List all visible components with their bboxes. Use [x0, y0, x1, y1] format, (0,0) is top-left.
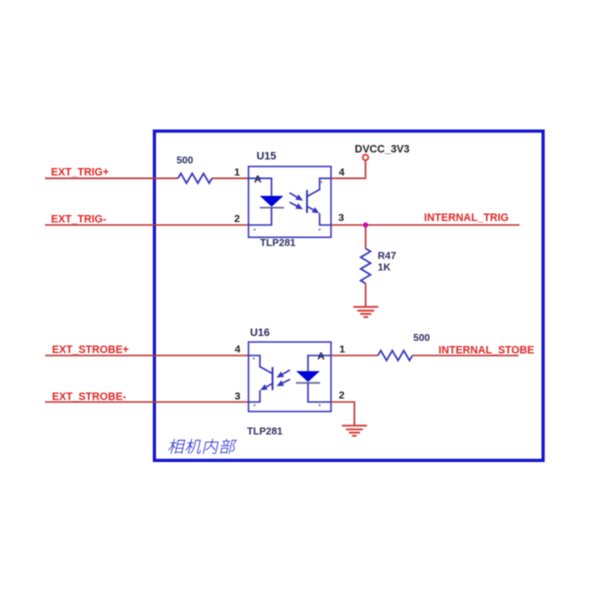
- svg-text:EXT_STROBE-: EXT_STROBE-: [52, 391, 127, 403]
- U16 collector lead (pin 4): [249, 356, 273, 374]
- svg-text:R47: R47: [378, 251, 397, 262]
- svg-text:INTERNAL_STOBE: INTERNAL_STOBE: [439, 345, 535, 357]
- opto-coupler U16 TLP281 body: [249, 342, 332, 412]
- U15 light arrow 1: [290, 193, 297, 197]
- svg-text:1: 1: [339, 344, 345, 356]
- svg-text:TLP281: TLP281: [260, 238, 296, 249]
- wire EXT_TRIG-: [45, 224, 249, 226]
- power port DVCC_3V3 circle: [363, 155, 369, 161]
- U16 LED anode lead (pin 1): [308, 356, 331, 372]
- wire INTERNAL_STOBE: [412, 355, 518, 357]
- U15 phototransistor base: [306, 190, 308, 213]
- svg-text:EXT_STROBE+: EXT_STROBE+: [52, 344, 129, 356]
- opto-coupler U15 TLP281 body: [249, 167, 332, 238]
- resistor R47 1K: [361, 249, 371, 284]
- resistor 500 (trigger input): [178, 173, 212, 183]
- wire EXT_STROBE+: [45, 355, 249, 357]
- ground (below R47): [353, 306, 378, 308]
- svg-text:500: 500: [413, 333, 430, 344]
- svg-text:4: 4: [339, 167, 345, 179]
- boundary box (camera internal): [154, 131, 543, 460]
- U15 light arrow 2: [290, 202, 297, 206]
- wire EXT_STROBE-: [45, 401, 249, 403]
- svg-text:TLP281: TLP281: [247, 426, 283, 437]
- U16 light arrow 1: [283, 370, 290, 374]
- svg-text:A: A: [317, 350, 325, 362]
- svg-text:DVCC_3V3: DVCC_3V3: [355, 143, 410, 155]
- svg-text:2: 2: [234, 213, 240, 225]
- wire junction to R47: [365, 225, 367, 249]
- U15 hidden pin dots: [320, 181, 322, 183]
- wire INTERNAL_TRIG: [331, 224, 520, 226]
- svg-text:EXT_TRIG+: EXT_TRIG+: [51, 167, 109, 179]
- svg-text:500: 500: [177, 156, 194, 167]
- wire pin4 U15 to DVCC_3V3: [331, 160, 366, 178]
- U16 phototransistor base: [272, 367, 274, 390]
- wire EXT_TRIG+: [45, 177, 178, 179]
- U16 LED diode: [296, 371, 320, 382]
- svg-text:1K: 1K: [378, 263, 392, 274]
- caption text 相机内部 (camera internal): [167, 439, 237, 454]
- svg-text:3: 3: [338, 212, 344, 224]
- svg-text:2: 2: [339, 390, 345, 402]
- U15 emitter lead with arrow (pin 3): [320, 213, 331, 225]
- svg-text:U16: U16: [250, 327, 270, 339]
- svg-text:INTERNAL_TRIG: INTERNAL_TRIG: [424, 212, 509, 224]
- U16 hidden pin dots: [253, 358, 255, 360]
- svg-text:U15: U15: [257, 150, 277, 162]
- wire pin2 U16 to ground: [331, 402, 354, 425]
- U15 LED diode: [260, 196, 284, 207]
- U16 emitter lead with arrow (pin 3): [249, 390, 260, 402]
- U15 LED anode lead (pin 1): [249, 178, 272, 196]
- U15 collector lead (pin 4): [307, 178, 331, 196]
- junction node: [363, 222, 368, 227]
- wire R47 to ground: [365, 284, 367, 307]
- resistor 500 (strobe output): [378, 351, 413, 361]
- U16 LED cathode lead (pin 2): [308, 383, 331, 402]
- wire pin1 U16 to resistor: [331, 355, 378, 357]
- U16 light arrow 2: [283, 379, 290, 383]
- svg-text:4: 4: [235, 344, 241, 356]
- svg-text:EXT_TRIG-: EXT_TRIG-: [51, 214, 107, 226]
- svg-text:3: 3: [235, 390, 241, 402]
- svg-text:1: 1: [234, 167, 240, 179]
- svg-text:A: A: [254, 173, 262, 185]
- ground (U16 pin 2): [342, 425, 367, 427]
- U15 LED cathode lead (pin 2): [249, 208, 272, 225]
